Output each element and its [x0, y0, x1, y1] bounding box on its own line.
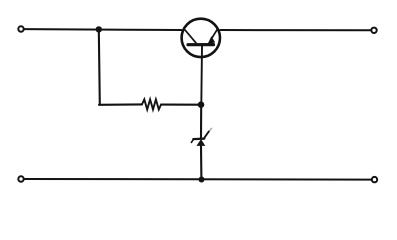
node B (junction dot base/resistor/zener) [198, 101, 205, 108]
zener D1 cathode left bend tick [191, 139, 193, 142]
terminal top-left [18, 26, 23, 31]
terminal bottom-right [372, 177, 377, 182]
transistor Q1 collector diagonal (left) [185, 30, 196, 43]
node C (junction dot on bottom rail) [199, 177, 205, 183]
transistor Q1 emitter arrowhead (PNP, pointing to base bar) [207, 36, 215, 44]
zener D1 cathode right bend tick [204, 132, 209, 139]
wire bottom rail [25, 178, 371, 181]
wire top rail right segment [220, 29, 370, 31]
resistor R1 zigzag [142, 99, 161, 109]
wire left vertical drop from node A [99, 29, 100, 104]
transistor Q1 emitter diagonal (right) [211, 29, 217, 39]
zener D1 anode triangle [197, 139, 206, 146]
terminal bottom-left [18, 176, 23, 181]
zener D1 faint scan ghost above tick [209, 128, 212, 131]
zener D1 cathode bar [193, 137, 204, 140]
wire zener to bottom rail [200, 146, 202, 180]
wire horizontal to resistor [99, 103, 142, 106]
transistor Q1 base bar [188, 43, 214, 46]
wire node B down to zener [200, 105, 202, 138]
transistor Q1 circle [182, 19, 220, 57]
wire resistor to node B [161, 104, 198, 106]
wire top rail left segment [25, 28, 182, 31]
transistor Q1 base lead down to node B [200, 46, 203, 105]
terminal top-right [371, 28, 376, 33]
node A (junction dot on top rail) [96, 26, 102, 32]
